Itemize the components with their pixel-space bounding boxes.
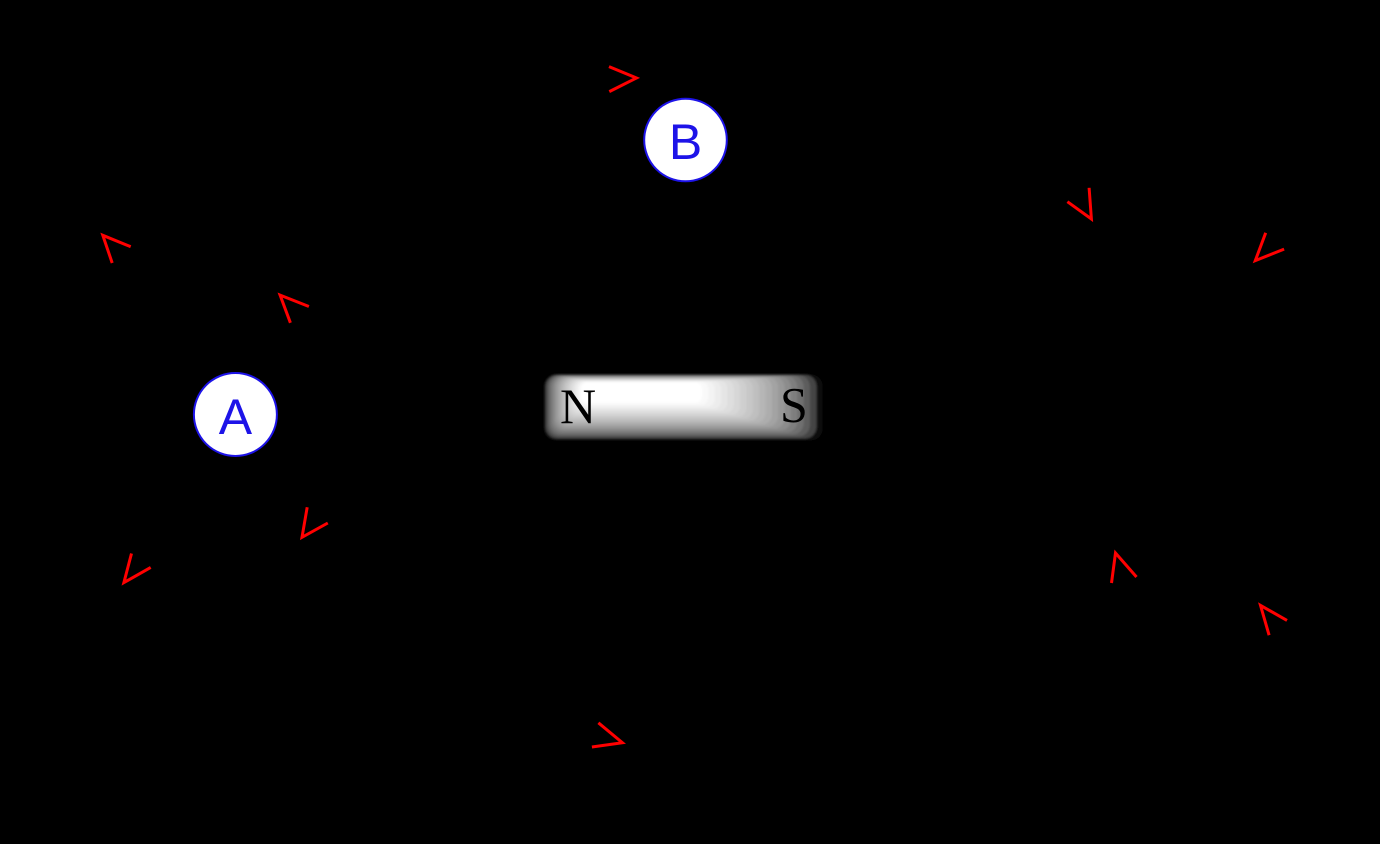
svg-text:S: S [780,377,808,433]
svg-text:N: N [560,378,596,434]
svg-text:A: A [219,389,253,445]
svg-text:B: B [669,114,702,170]
